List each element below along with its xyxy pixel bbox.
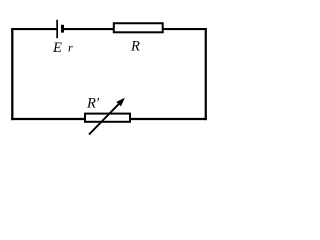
battery E short plate: [61, 25, 64, 33]
svg-text:r: r: [68, 41, 73, 55]
wire battery to resistor R: [64, 28, 114, 30]
svg-text:R′: R′: [86, 96, 100, 112]
svg-text:E: E: [52, 40, 62, 56]
rheostat arrowhead: [116, 98, 125, 107]
wire bottom: [11, 118, 207, 120]
battery E long plate: [56, 20, 58, 38]
resistor R box: [114, 23, 163, 32]
wire resistor R to top-right corner: [163, 28, 207, 30]
wire left side: [11, 28, 13, 120]
rheostat R' box: [85, 114, 130, 122]
rheostat arrow shaft: [89, 101, 122, 135]
svg-text:R: R: [130, 38, 140, 54]
wire right side: [205, 28, 207, 120]
wire top-left segment: [11, 28, 57, 30]
